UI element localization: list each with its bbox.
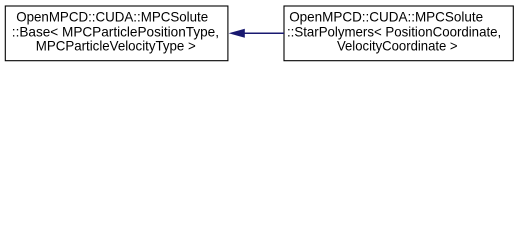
class box StarPolymers (right) <box>284 6 513 61</box>
svg-text:MPCParticleVelocityType >: MPCParticleVelocityType > <box>36 39 196 54</box>
svg-text:OpenMPCD::CUDA::MPCSolute: OpenMPCD::CUDA::MPCSolute <box>16 9 208 24</box>
inheritance arrowhead <box>229 29 245 38</box>
svg-text:VelocityCoordinate >: VelocityCoordinate > <box>337 39 458 54</box>
class box Base (left) <box>5 6 228 61</box>
svg-text:::Base< MPCParticlePositionTyp: ::Base< MPCParticlePositionType, <box>12 24 219 39</box>
inheritance arrow shaft <box>244 32 284 34</box>
svg-text:::StarPolymers< PositionCoordi: ::StarPolymers< PositionCoordinate, <box>287 24 501 39</box>
svg-text:OpenMPCD::CUDA::MPCSolute: OpenMPCD::CUDA::MPCSolute <box>289 9 483 24</box>
